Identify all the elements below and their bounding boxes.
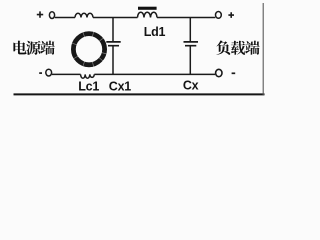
inductor Lc1 winding B (bottom)	[81, 74, 95, 78]
minus sign at power - terminal	[39, 72, 42, 74]
capacitor Cx1 bottom lead	[112, 47, 114, 75]
svg-text:Cx1: Cx1	[109, 80, 131, 94]
svg-text:Lc1: Lc1	[78, 80, 99, 94]
wire top segment to node of Cx1 and on to Ld1	[93, 17, 138, 19]
table cell bottom border	[14, 93, 265, 95]
inductor Lc1 winding A (top)	[75, 13, 93, 17]
plus sign at load + terminal	[228, 12, 234, 18]
plus sign at power + terminal	[37, 11, 43, 17]
terminal circle bottom-left	[46, 69, 52, 76]
inductor Ld1	[138, 12, 158, 17]
label 电源端 (power side)	[13, 41, 54, 55]
terminal circle bottom-right	[216, 69, 222, 76]
wire bottom segment from - terminal to Lc1 winding B	[52, 73, 81, 75]
minus sign at load - terminal	[232, 72, 236, 74]
terminal circle top-left	[49, 12, 54, 19]
wire bottom segment from Lc1 to load - terminal	[94, 73, 215, 75]
capacitor Cx bottom lead	[189, 47, 191, 75]
table cell right border	[262, 3, 264, 95]
svg-text:Ld1: Ld1	[144, 25, 166, 39]
capacitor Cx plates	[184, 42, 199, 46]
capacitor Cx1 plates	[106, 42, 120, 46]
capacitor Cx1 top lead	[112, 18, 114, 42]
label 负载端 (load side)	[216, 41, 259, 55]
toroid core of common-mode choke Lc1	[72, 31, 107, 67]
wire top segment from + terminal to Lc1 winding A	[55, 17, 75, 19]
svg-text:Cx: Cx	[183, 78, 199, 92]
core bar of Ld1	[138, 7, 157, 10]
wire top segment from Ld1 to node of Cx and load + terminal	[157, 17, 215, 19]
capacitor Cx top lead	[189, 18, 191, 42]
terminal circle top-right	[216, 12, 222, 19]
